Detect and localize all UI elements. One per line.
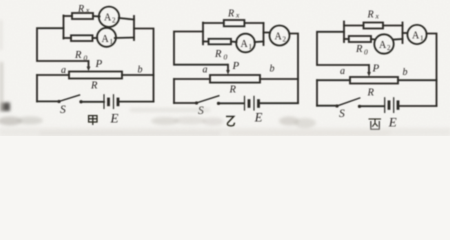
svg-text:R: R — [367, 88, 375, 99]
svg-text:R: R — [74, 50, 82, 61]
svg-text:R: R — [367, 10, 374, 21]
svg-text:A: A — [241, 39, 249, 50]
svg-text:A: A — [412, 31, 420, 42]
svg-text:P: P — [372, 63, 380, 75]
svg-text:R: R — [227, 9, 234, 20]
svg-text:R: R — [355, 44, 363, 55]
svg-text:2: 2 — [112, 17, 116, 25]
svg-text:A: A — [104, 13, 112, 24]
svg-text:E: E — [110, 111, 119, 126]
svg-text:0: 0 — [364, 47, 368, 56]
svg-text:R: R — [90, 81, 98, 92]
svg-text:R: R — [77, 4, 84, 15]
svg-text:E: E — [388, 115, 397, 130]
svg-text:P: P — [95, 58, 103, 70]
svg-text:a: a — [61, 65, 66, 76]
svg-text:1: 1 — [110, 38, 114, 46]
svg-text:A: A — [275, 32, 283, 43]
svg-text:A: A — [102, 34, 110, 45]
svg-text:b: b — [138, 65, 143, 76]
svg-text:b: b — [270, 64, 275, 75]
svg-text:1: 1 — [420, 35, 424, 43]
svg-text:0: 0 — [84, 53, 88, 62]
svg-text:a: a — [340, 66, 345, 77]
svg-text:E: E — [254, 111, 263, 125]
svg-text:x: x — [235, 11, 240, 20]
svg-text:2: 2 — [387, 44, 391, 52]
svg-text:S: S — [60, 104, 66, 116]
svg-text:2: 2 — [283, 36, 287, 44]
svg-text:x: x — [85, 6, 90, 15]
svg-text:A: A — [379, 40, 387, 51]
svg-text:R: R — [214, 49, 222, 60]
svg-text:P: P — [232, 60, 240, 72]
svg-text:0: 0 — [224, 53, 228, 62]
svg-text:R: R — [229, 85, 237, 96]
svg-text:b: b — [403, 67, 408, 78]
svg-text:S: S — [339, 108, 345, 120]
svg-text:x: x — [375, 12, 380, 21]
svg-text:a: a — [203, 65, 208, 76]
svg-text:1: 1 — [249, 43, 253, 51]
